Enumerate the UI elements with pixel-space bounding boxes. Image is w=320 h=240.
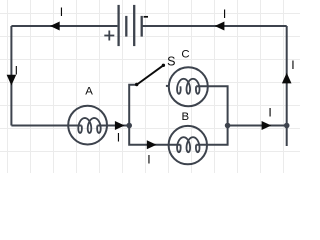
svg-text:I: I — [223, 7, 226, 21]
wire right riser (lamp C right to lamp B right) — [196, 86, 227, 144]
junction left — [126, 123, 132, 129]
junction at right wire — [284, 123, 290, 129]
svg-text:I: I — [15, 63, 18, 77]
svg-text:I: I — [147, 152, 150, 166]
current arrow I (top-right wire) — [215, 7, 227, 30]
wire left side — [10, 26, 12, 126]
svg-text:I: I — [117, 131, 120, 145]
svg-text:B: B — [181, 111, 189, 123]
wire bottom-left to lamp A — [11, 125, 81, 127]
lamp A — [68, 106, 107, 145]
current arrow I (top-left wire) — [50, 5, 63, 30]
lamp B — [169, 126, 207, 164]
svg-text:A: A — [85, 85, 93, 97]
current arrow I (after lamp A) — [115, 121, 125, 145]
svg-text:I: I — [291, 58, 294, 72]
svg-text:I: I — [268, 105, 271, 119]
switch S pivot dot — [135, 83, 138, 86]
wire lamp A to junction — [97, 125, 129, 127]
current arrow I (output wire) — [262, 105, 272, 130]
svg-text:C: C — [181, 48, 189, 60]
switch S blade — [137, 65, 163, 84]
battery + terminal label — [104, 31, 114, 41]
battery - terminal label — [144, 16, 148, 18]
junction right — [225, 123, 231, 129]
svg-text:I: I — [60, 5, 63, 19]
wire switch to lamp C — [166, 85, 169, 87]
wire top-right — [142, 25, 287, 27]
wire right side — [286, 26, 288, 146]
wire top-left — [11, 25, 117, 27]
wire output to right side — [228, 125, 287, 127]
wire left riser and lamp B branch — [129, 85, 180, 145]
battery — [119, 5, 142, 46]
current arrow I (left wire, down) — [7, 63, 18, 85]
switch S tip dot — [162, 64, 165, 67]
svg-text:S: S — [167, 54, 175, 68]
current arrow I (lamp B branch) — [147, 140, 157, 166]
lamp C — [169, 67, 208, 106]
current arrow I (right wire, up) — [282, 58, 295, 83]
